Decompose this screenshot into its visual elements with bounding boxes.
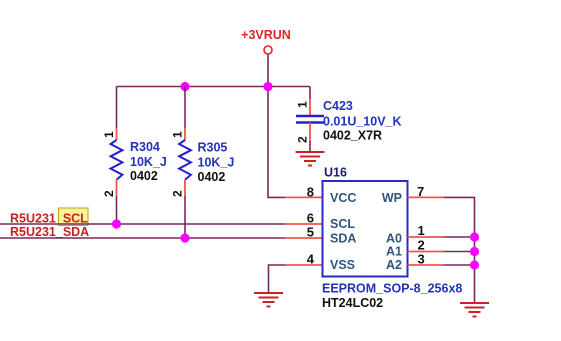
pin 2 stub A1 [408,251,445,253]
wire: R305 top [184,87,186,129]
resistor R305 [179,140,191,180]
junction: power rail [263,82,272,91]
ground at VSS [254,293,283,307]
svg-text:SCL: SCL [330,217,355,231]
junction: R305 top [180,82,189,91]
svg-text:2: 2 [418,238,425,253]
junction: R305 on SDA [180,233,189,242]
svg-text:VSS: VSS [330,258,355,272]
svg-text:2: 2 [171,190,185,197]
svg-text:5: 5 [307,225,314,240]
pin 7 stub WP [408,196,445,198]
svg-text:R305: R305 [198,141,228,155]
svg-text:2: 2 [102,190,116,197]
wire: SCL rail [0,223,285,225]
wire: A1 to right rail [444,251,475,253]
svg-text:2: 2 [296,136,310,143]
svg-text:R5U231_SDA: R5U231_SDA [10,225,89,239]
svg-text:0.01U_10V_K: 0.01U_10V_K [323,115,402,129]
junction: A1 [470,247,479,256]
svg-text:0402: 0402 [130,169,158,183]
svg-text:10K_J: 10K_J [130,155,167,169]
svg-text:R304: R304 [130,140,160,154]
junction: A2 [470,260,479,269]
pin 1 stub C423 [309,99,311,116]
svg-text:A1: A1 [386,245,402,259]
op-amp U16 (EEPROM IC body) [323,181,408,277]
ground at right rail [460,303,489,317]
svg-text:A0: A0 [386,232,402,246]
wire: WP to right rail [444,197,475,302]
svg-text:1: 1 [418,223,425,238]
wire: cap to ground [309,141,311,151]
svg-text:1: 1 [296,101,310,108]
wire: R304 bottom to SCL [116,196,118,224]
svg-text:1: 1 [171,131,185,138]
pin 4 stub VSS [285,264,323,266]
junction: R304 on SCL [112,219,121,228]
pin 1 stub A0 [408,236,445,238]
wire: top rail [117,86,311,88]
svg-text:0402: 0402 [198,170,226,184]
svg-text:4: 4 [307,252,315,267]
wire: R305 bottom to SDA [184,196,186,238]
pin 2 stub R305 [184,180,186,196]
svg-text:1: 1 [102,131,116,138]
svg-text:U16: U16 [324,166,347,180]
svg-text:A2: A2 [386,258,402,272]
pin 3 stub A2 [408,264,445,266]
resistor R304 [111,140,123,180]
wire: cap branch from rail [309,87,311,100]
svg-text:VCC: VCC [330,191,356,205]
pin 1 stub R305 [184,128,186,140]
pin 1 stub R304 [116,128,118,140]
svg-text:HT24LC02: HT24LC02 [322,296,383,310]
pin 2 stub R304 [116,180,118,196]
svg-text:WP: WP [382,191,402,205]
pin 2 stub C423 [309,123,311,142]
svg-text:C423: C423 [323,99,353,113]
svg-text:10K_J: 10K_J [198,156,235,170]
wire: R304 top [116,87,118,129]
svg-text:EEPROM_SOP-8_256x8: EEPROM_SOP-8_256x8 [322,282,462,296]
wire: SDA rail [0,237,285,239]
power symbol +3VRUN [264,46,272,54]
wire: +3VRUN vertical down to VCC [268,55,285,198]
junction: A0 [470,232,479,241]
pin 5 stub SDA [285,237,323,239]
wire: A0 to right rail [444,236,475,238]
svg-text:6: 6 [307,211,314,226]
svg-text:SDA: SDA [330,232,356,246]
svg-text:0402_X7R: 0402_X7R [323,129,382,143]
wire: VSS to ground [269,265,286,292]
svg-text:8: 8 [307,185,314,200]
capacitor C423 [296,116,324,123]
svg-text:+3VRUN: +3VRUN [241,28,291,42]
ground under C423 [296,152,325,166]
wire: A2 to right rail [444,264,475,266]
net label R5U231_SCL [59,208,89,226]
pin 6 stub SCL [285,223,323,225]
pin 8 stub VCC [285,196,323,198]
